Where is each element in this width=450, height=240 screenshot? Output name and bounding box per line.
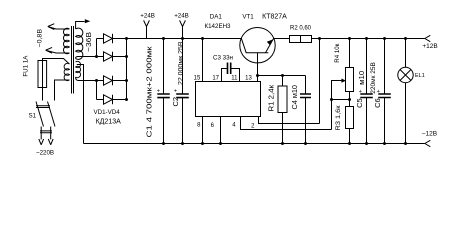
svg-text:+12В: +12В xyxy=(422,43,437,50)
svg-text:С5: С5 xyxy=(355,98,364,108)
svg-text:VD1-VD4: VD1-VD4 xyxy=(94,109,121,116)
svg-text:~36В: ~36В xyxy=(86,32,93,52)
svg-text:R4 10к: R4 10к xyxy=(334,43,341,62)
svg-text:+24В: +24В xyxy=(174,13,189,20)
svg-text:~220В: ~220В xyxy=(36,150,54,157)
svg-text:+: + xyxy=(174,89,177,95)
svg-text:17: 17 xyxy=(212,75,219,81)
svg-text:11: 11 xyxy=(231,75,238,81)
svg-text:22 000мк 25В: 22 000мк 25В xyxy=(177,41,184,85)
svg-text:R2 0,60: R2 0,60 xyxy=(290,25,312,31)
svg-text:VT1: VT1 xyxy=(242,14,254,21)
svg-text:С6: С6 xyxy=(373,98,382,108)
svg-text:S1: S1 xyxy=(29,113,37,120)
svg-text:EL1: EL1 xyxy=(415,73,425,79)
svg-text:С3 33н: С3 33н xyxy=(213,54,233,61)
svg-text:К142ЕН3: К142ЕН3 xyxy=(205,23,232,30)
svg-text:13: 13 xyxy=(245,75,252,81)
svg-text:С4 м10: С4 м10 xyxy=(292,85,299,110)
svg-text:15: 15 xyxy=(194,75,201,81)
svg-text:+: + xyxy=(157,89,160,95)
svg-text:м10: м10 xyxy=(359,71,366,85)
svg-text:С2: С2 xyxy=(171,97,180,107)
svg-text:+24В: +24В xyxy=(140,13,155,20)
svg-text:С1 4 700мк+2 000мк: С1 4 700мк+2 000мк xyxy=(146,45,153,137)
svg-text:КТ827А: КТ827А xyxy=(262,14,287,21)
svg-text:–12В: –12В xyxy=(422,130,437,137)
svg-text:~0,8В: ~0,8В xyxy=(37,28,44,47)
svg-text:+: + xyxy=(359,89,362,95)
svg-text:R1 2,4к: R1 2,4к xyxy=(268,84,275,112)
svg-text:R3 1,6к: R3 1,6к xyxy=(335,105,342,130)
svg-text:КД213А: КД213А xyxy=(96,118,121,125)
svg-text:FU1 1А: FU1 1А xyxy=(23,55,30,77)
svg-text:DA1: DA1 xyxy=(210,14,223,21)
svg-text:+: + xyxy=(377,89,380,95)
